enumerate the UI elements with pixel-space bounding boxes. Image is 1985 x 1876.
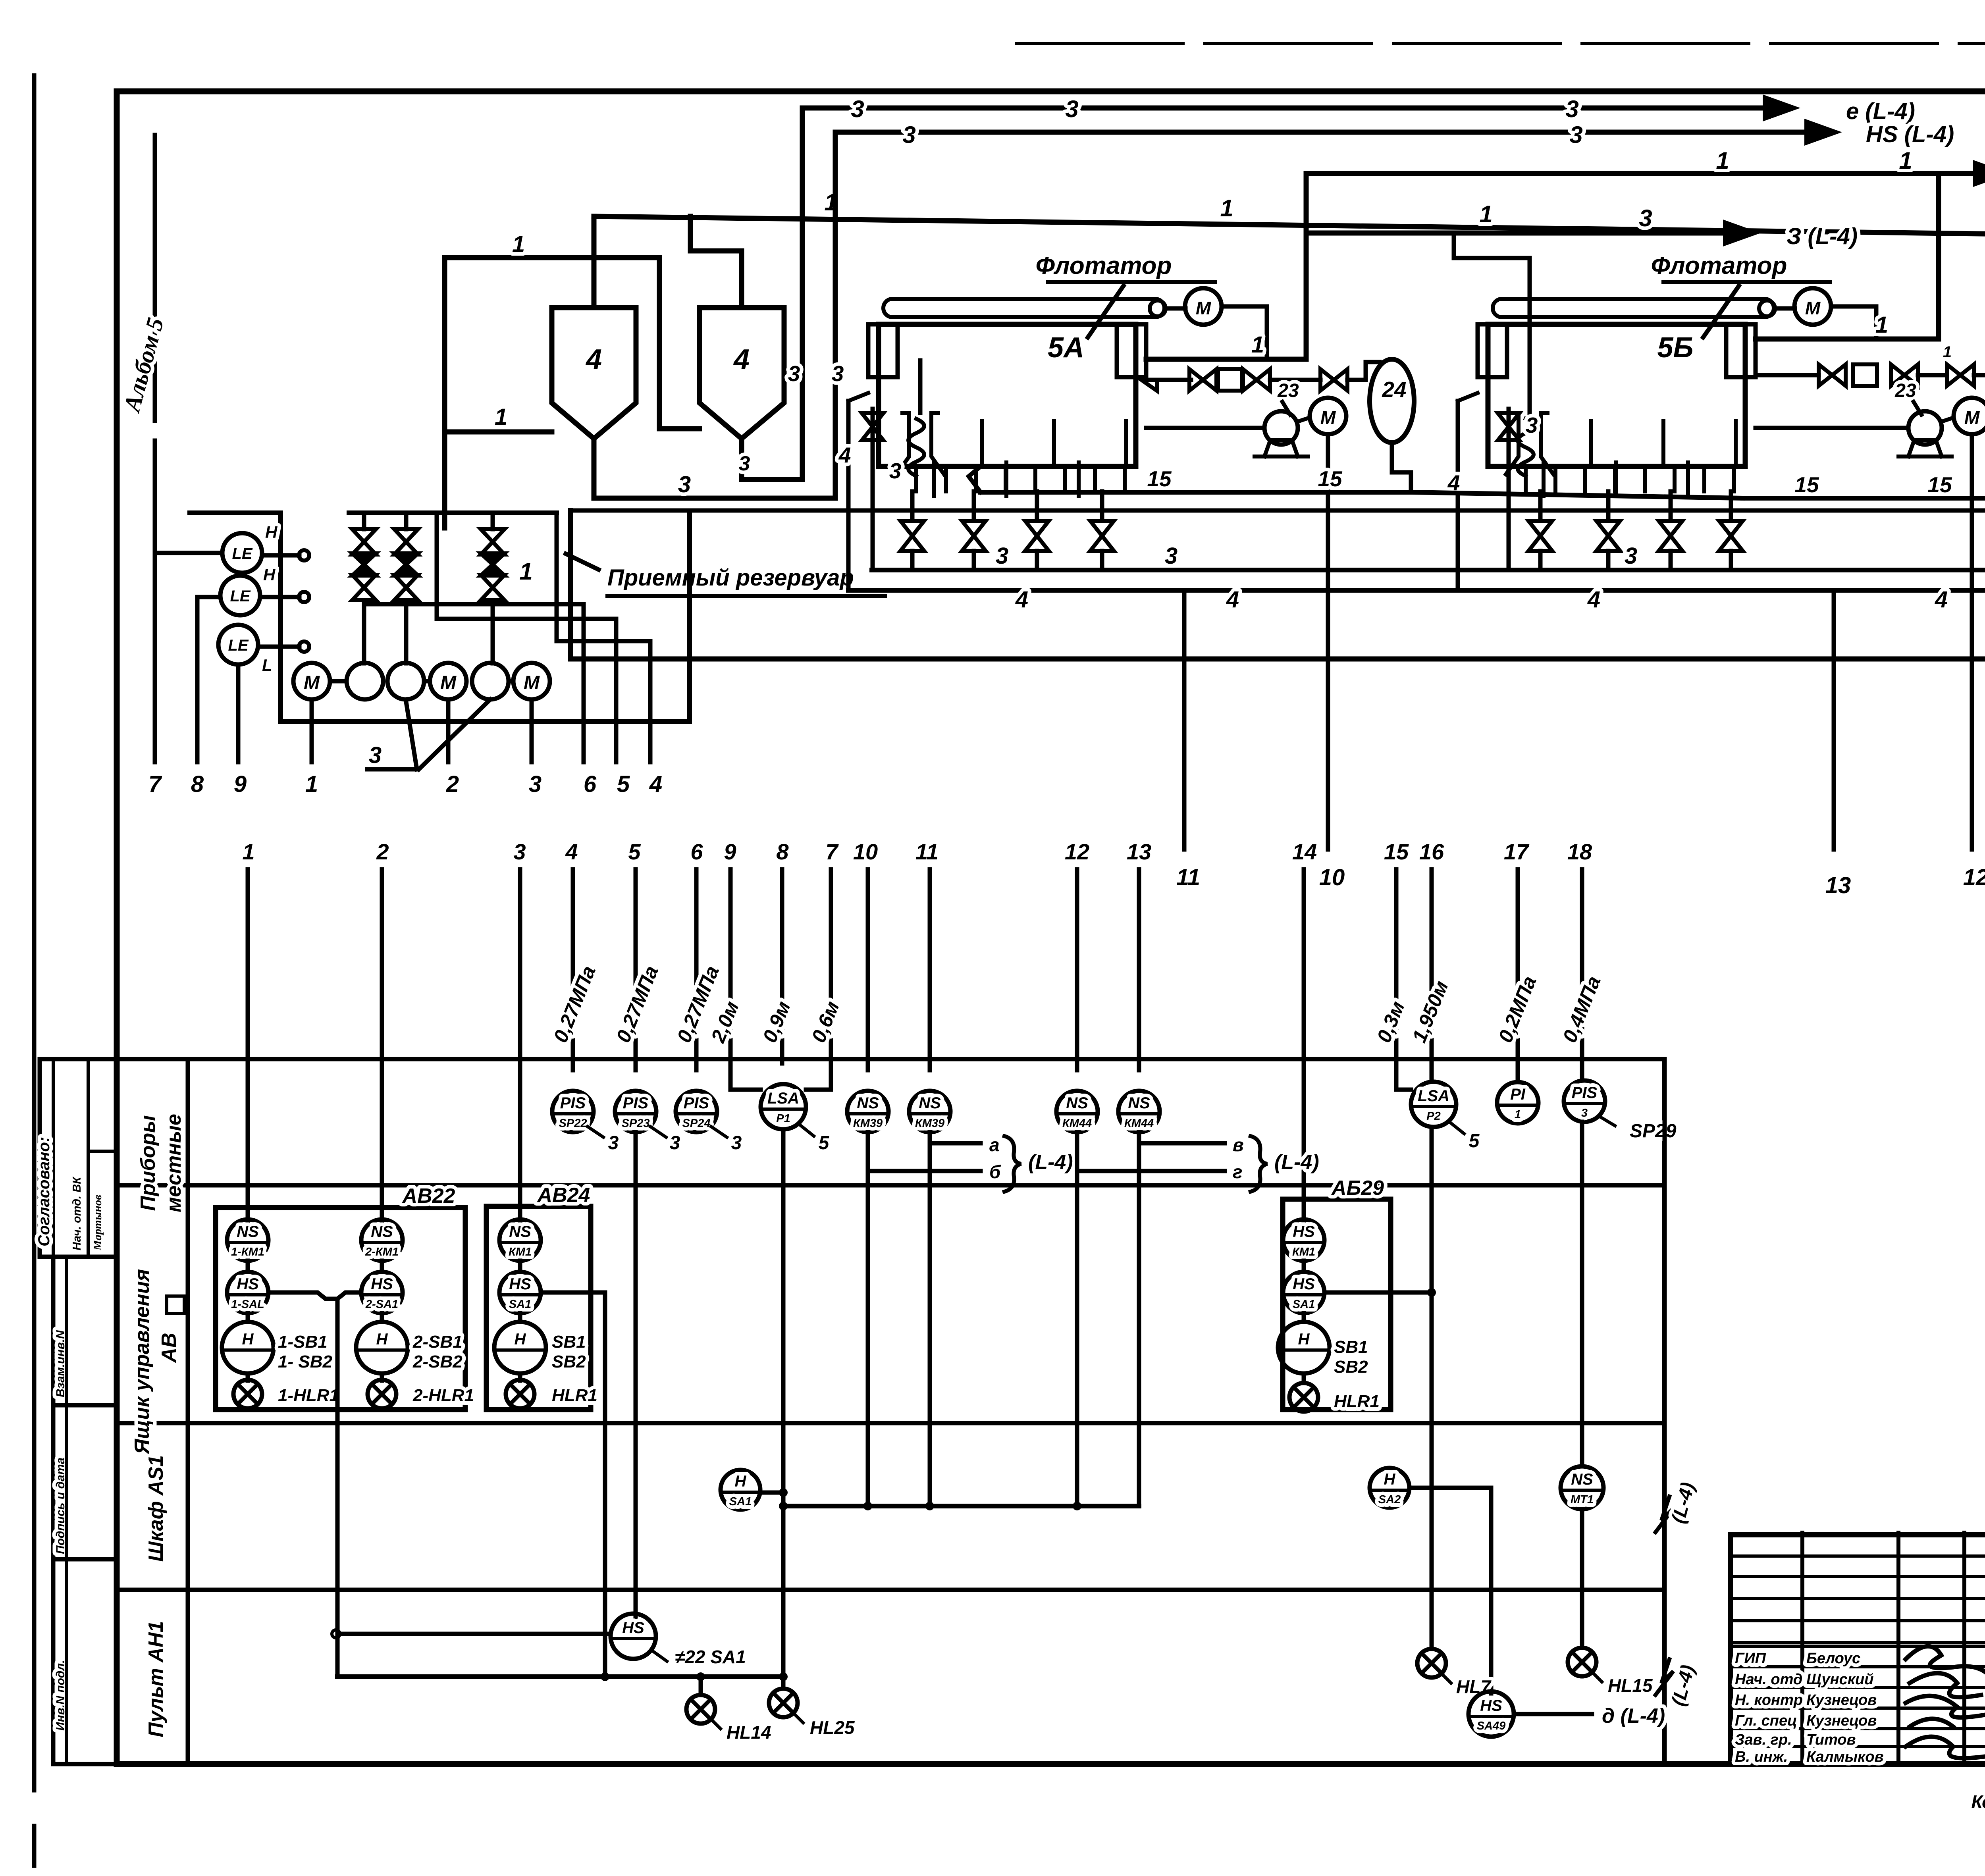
header 3 under tanks	[872, 568, 1985, 572]
wire 9 elbow into LSA P1	[730, 1088, 761, 1090]
motor M1 circle	[293, 663, 330, 699]
flotator 5B bottom valve 4	[1719, 521, 1743, 551]
level gauge LE3 circle	[218, 625, 258, 664]
svg-text:Шкаф AS1: Шкаф AS1	[145, 1455, 168, 1562]
L1 corner from tank2 drain riser	[800, 108, 805, 135]
label ≠22 SA1	[653, 1651, 667, 1661]
top margin dash-dot line	[1016, 42, 1985, 45]
instrument PIS SP22	[552, 1091, 594, 1132]
svg-text:Нач. отд. ВК: Нач. отд. ВК	[71, 1176, 83, 1250]
svg-text:2-SB1: 2-SB1	[412, 1332, 463, 1352]
svg-text:3: 3	[739, 452, 750, 475]
svg-text:7: 7	[148, 771, 162, 797]
svg-text:М: М	[524, 672, 540, 693]
wire 13 drop	[1832, 590, 1836, 849]
table wire 8 vertical	[780, 869, 784, 1063]
link pump23B-MB	[1942, 418, 1954, 422]
svg-text:23: 23	[1894, 380, 1916, 401]
wire 15 elbow into LSA P2	[1396, 1088, 1411, 1090]
link NS-HS АВ24	[518, 1261, 522, 1272]
svg-text:1: 1	[1515, 1108, 1521, 1121]
NS MT1 drop to HL15	[1580, 1509, 1584, 1648]
line 3 vertical with valve left of 5A	[871, 409, 875, 570]
svg-text:PIS: PIS	[1572, 1084, 1598, 1102]
pump 23B base	[1908, 440, 1942, 456]
svg-text:КМ1: КМ1	[509, 1246, 532, 1258]
flotator 5А skimmer pivot	[1150, 300, 1166, 316]
flotator 5B bottom valve 2	[1596, 521, 1620, 551]
wire 11 drop	[1182, 590, 1187, 849]
instrument H button АВ29	[1278, 1322, 1330, 1373]
svg-text:SР29: SР29	[1630, 1121, 1677, 1142]
title block name rows	[1731, 1645, 1985, 1648]
wire 2 from M2	[446, 699, 451, 762]
valve V2 stem to pump	[404, 600, 409, 663]
svg-text:HS: HS	[509, 1275, 531, 1293]
L2 corner from tank1 drain riser	[833, 132, 838, 159]
motor M3 circle	[513, 663, 550, 699]
wire 12 stub below bubble	[1075, 1132, 1079, 1171]
instrument HS SA49	[1469, 1691, 1514, 1737]
pump pit enclosure top-left bracket	[190, 510, 281, 515]
feed elbow into 5B funnel	[1454, 233, 1530, 258]
feed line 1 into tank1	[445, 430, 552, 435]
header 15 left hook	[969, 466, 981, 492]
flotator 5B outlet line 1	[1756, 337, 1939, 342]
svg-text:HL25: HL25	[810, 1717, 855, 1738]
flotator 5B bottom valve 4 stem	[1729, 491, 1733, 521]
table wire 14 vertical	[1302, 869, 1306, 1221]
branch а line	[930, 1141, 981, 1146]
svg-text:4: 4	[1587, 587, 1600, 612]
svg-text:3: 3	[788, 361, 800, 386]
svg-text:4: 4	[649, 771, 662, 797]
svg-text:SB1: SB1	[1334, 1337, 1368, 1357]
margin strip Взам.инв.N	[53, 1257, 117, 1405]
svg-text:LSA: LSA	[1418, 1087, 1449, 1105]
bus a from valve V1	[362, 600, 366, 663]
svg-text:HS: HS	[622, 1619, 644, 1637]
svg-text:Н: Н	[242, 1331, 254, 1348]
flotator 5А inlet pipe	[918, 360, 923, 413]
table wire 4 vertical	[571, 869, 575, 1070]
svg-text:5: 5	[617, 771, 630, 797]
flotator 5B bottom valve 1	[1528, 521, 1552, 551]
svg-text:NS: NS	[857, 1094, 879, 1112]
LE3 tap line and contact	[258, 645, 299, 649]
wire 10 stub below bubble	[866, 1132, 870, 1171]
lamp HL14	[699, 1677, 703, 1695]
LSA P1 continuation down	[781, 1129, 786, 1493]
bus b	[435, 513, 439, 619]
svg-text:Н. контр: Н. контр	[1735, 1692, 1803, 1708]
svg-text:SA2: SA2	[1378, 1493, 1401, 1506]
svg-text:SP24: SP24	[682, 1117, 711, 1130]
svg-text:Н: Н	[515, 1331, 526, 1348]
table wire 17 vertical	[1516, 869, 1520, 1081]
svg-text:Щунский: Щунский	[1806, 1671, 1873, 1688]
svg-text:3: 3	[608, 1133, 619, 1154]
svg-text:1: 1	[1251, 332, 1264, 358]
svg-text:НS: НS	[1293, 1223, 1315, 1240]
svg-text:1: 1	[1943, 343, 1952, 361]
gate valve 5A-b	[1243, 369, 1270, 391]
filter box 5B	[1853, 364, 1877, 386]
svg-text:3: 3	[1639, 205, 1652, 231]
svg-text:HL15: HL15	[1608, 1675, 1653, 1696]
svg-text:Приемный резервуар: Приемный резервуар	[607, 565, 854, 591]
svg-text:5А: 5А	[1048, 332, 1084, 364]
flotator 5A riser to L3	[1304, 173, 1309, 359]
link H-lamp col1	[246, 1373, 250, 1381]
level gauge LE2 circle	[220, 576, 260, 615]
svg-text:Н: Н	[1384, 1471, 1396, 1488]
svg-text:NS: NS	[509, 1223, 531, 1240]
svg-text:3: 3	[670, 1133, 680, 1154]
svg-text:4: 4	[585, 344, 602, 376]
svg-text:HS: HS	[237, 1275, 259, 1293]
label HL25	[793, 1713, 803, 1723]
svg-text:15: 15	[1384, 839, 1409, 864]
skimmer motor M 5А	[1185, 288, 1222, 325]
link HS-H АВ24	[518, 1313, 522, 1322]
table wire 12 vertical	[1075, 869, 1079, 1070]
svg-text:12: 12	[1065, 839, 1089, 864]
vessel 24A bottom stem	[1392, 443, 1411, 492]
svg-text:М: М	[1320, 407, 1336, 428]
break mark lower	[1655, 1659, 1673, 1695]
svg-text:Зав. гр.: Зав. гр.	[1735, 1732, 1792, 1748]
svg-text:NS: NS	[237, 1223, 259, 1240]
gate valve 5A-c	[1320, 369, 1347, 391]
svg-text:З (L-4): З (L-4)	[1786, 223, 1858, 249]
box АВ24	[486, 1206, 591, 1410]
svg-text:≠22 SA1: ≠22 SA1	[675, 1647, 746, 1667]
svg-text:2-SB2: 2-SB2	[412, 1352, 463, 1371]
lamp HL15	[1568, 1648, 1596, 1676]
LE1 left line to wire7	[155, 551, 222, 555]
manifold feed from tanks	[445, 511, 449, 515]
branch в line	[1139, 1141, 1225, 1146]
valve on line 3 5B	[1498, 413, 1519, 440]
svg-text:3: 3	[1569, 121, 1582, 148]
svg-text:2-HLR1: 2-HLR1	[412, 1386, 474, 1405]
instrument NS 1-KM1	[227, 1219, 268, 1261]
instrument H SA2 (Шкаф)	[1370, 1468, 1409, 1508]
svg-text:NS: NS	[919, 1094, 941, 1112]
svg-text:3: 3	[996, 543, 1008, 569]
gate valve 5B-a	[1819, 364, 1846, 386]
margin strip Инв.N подл.	[53, 1559, 117, 1764]
wire 13 down to bus	[1137, 1143, 1141, 1506]
instrument NS KM44 b	[1118, 1091, 1160, 1132]
svg-text:14: 14	[1292, 839, 1317, 864]
table wire 15 vertical	[1394, 869, 1399, 1088]
flotator 5А inlet funnel	[896, 413, 909, 474]
wire 7 vertical	[153, 553, 157, 762]
svg-text:М: М	[440, 672, 457, 693]
flotator 5B riser to L3	[1936, 173, 1941, 339]
svg-text:3: 3	[369, 742, 382, 768]
svg-text:HL14: HL14	[727, 1722, 771, 1743]
table row line r1 (top of Приборы местные)	[117, 1057, 1664, 1061]
svg-text:Н: Н	[263, 565, 276, 584]
flotator 5Б skimmer link	[1775, 306, 1795, 311]
flotator 5B bottom valve 1 stem	[1538, 491, 1543, 521]
Пульт bus1 to HS	[337, 1632, 611, 1636]
svg-text:HS: HS	[371, 1275, 393, 1293]
flotator 5Б skimmer pivot	[1759, 300, 1775, 316]
LSA P1 tag 5	[798, 1123, 814, 1136]
svg-text:Н: Н	[376, 1331, 388, 1348]
table wire 10 vertical	[866, 869, 870, 1070]
flotator 5А right corner box	[1117, 324, 1146, 377]
flotator 5A bottom valve 2	[962, 521, 986, 551]
reservoir top line	[570, 508, 1985, 513]
table title column divider	[186, 1059, 190, 1764]
svg-text:5: 5	[819, 1133, 830, 1154]
svg-text:1-КМ1: 1-КМ1	[231, 1246, 264, 1258]
svg-text:ГИП: ГИП	[1735, 1650, 1766, 1667]
svg-text:3: 3	[1165, 543, 1178, 569]
svg-text:3: 3	[513, 839, 526, 864]
svg-text:1- SB2: 1- SB2	[278, 1352, 332, 1371]
svg-text:3: 3	[1581, 1107, 1588, 1119]
svg-text:8: 8	[191, 771, 204, 797]
wire 5 continuation to Пульт	[634, 1132, 638, 1618]
svg-text:АВ: АВ	[158, 1333, 181, 1363]
svg-text:КМ39: КМ39	[853, 1117, 883, 1130]
wire 7 elbow into LSA P1	[806, 1088, 831, 1090]
svg-text:P1: P1	[776, 1112, 790, 1125]
svg-text:Ящик управления: Ящик управления	[131, 1269, 154, 1455]
title block small grid verticals	[1800, 1533, 1804, 1764]
tank1 drain header 3	[594, 496, 835, 501]
svg-text:HLR1: HLR1	[1334, 1392, 1380, 1411]
svg-text:М: М	[1805, 298, 1821, 318]
instrument HS SA1 (АВ24)	[499, 1272, 541, 1313]
lamp HL7	[1417, 1649, 1446, 1678]
svg-text:а: а	[989, 1134, 1000, 1155]
PIS 3 tag SP29	[1599, 1116, 1615, 1126]
svg-text:HLR1: HLR1	[552, 1386, 597, 1405]
instrument HS 2-SA1	[361, 1272, 403, 1313]
link pump3-M3	[509, 679, 513, 684]
table wire 13 vertical	[1137, 869, 1141, 1070]
tank 4 No2 body	[700, 308, 784, 439]
svg-text:PIS: PIS	[560, 1094, 586, 1112]
reservoir left edge	[568, 510, 573, 659]
svg-text:2-КМ1: 2-КМ1	[365, 1246, 399, 1258]
flotator 5A bottom valve 1 stem	[910, 491, 915, 521]
table wire 16 vertical	[1430, 869, 1434, 1082]
reservoir label leader	[566, 554, 599, 570]
svg-text:LE: LE	[230, 587, 251, 605]
svg-text:Флотатор: Флотатор	[1036, 252, 1172, 279]
svg-text:Н: Н	[1298, 1331, 1310, 1348]
table wire 5 vertical	[634, 869, 638, 1070]
flotator 5A bottom valve 1	[900, 521, 924, 551]
PIS SP22 tag 3	[588, 1127, 603, 1137]
instrument H button col1	[222, 1322, 274, 1373]
title block outer	[1731, 1532, 1985, 1537]
svg-text:1: 1	[519, 558, 532, 585]
table wire 11 vertical	[928, 869, 932, 1070]
table right boundary vertical	[1662, 1059, 1667, 1764]
valve V3 stem top	[491, 513, 495, 529]
HS SA1 branch right drop x1524	[541, 1292, 605, 1677]
vessel 24A	[1370, 359, 1414, 443]
branch б line	[868, 1169, 981, 1173]
lamp 1-HLR1	[233, 1380, 262, 1408]
svg-text:SА49: SА49	[1477, 1720, 1506, 1732]
svg-text:9: 9	[234, 771, 247, 797]
table wire 3 vertical	[518, 869, 522, 1221]
bus c	[555, 513, 559, 641]
valve row line 5A	[1146, 378, 1191, 382]
svg-text:3: 3	[1565, 96, 1578, 122]
shutoff valve stack V3	[481, 529, 505, 555]
skimmer motor M 5Б	[1794, 288, 1831, 325]
valve V1 stem top	[362, 513, 366, 529]
instrument LSA P2	[1411, 1082, 1456, 1127]
instrument H button col2	[356, 1322, 408, 1373]
svg-text:3: 3	[832, 361, 844, 386]
link NS-HS col1	[246, 1261, 250, 1272]
wire 16 continuation down	[1430, 1127, 1434, 1649]
flotator 5Б right corner box	[1726, 324, 1756, 377]
label HL7	[1441, 1673, 1451, 1683]
svg-text:Белоус: Белоус	[1806, 1650, 1860, 1667]
pump 23B suction	[1756, 426, 1908, 430]
svg-text:1: 1	[495, 404, 507, 430]
svg-text:3: 3	[1526, 413, 1538, 437]
shutoff valve stack V2	[394, 529, 418, 555]
feed drop to tank2	[657, 258, 662, 429]
motor M2 circle	[430, 663, 466, 699]
table row line r3 (Ящик/Шкаф)	[117, 1421, 1664, 1425]
box АВ29	[1283, 1199, 1391, 1410]
wire 11 down to bus	[928, 1143, 932, 1506]
table row line r4 (Шкаф/Пульт)	[117, 1588, 1664, 1592]
svg-text:МТ1: МТ1	[1571, 1493, 1594, 1506]
tank 4 No2 drain stem	[739, 439, 744, 480]
flotator 5A bottom valve 4 stem	[1100, 491, 1104, 521]
line 3 vertical with valve left of 5B	[1507, 409, 1511, 570]
wire 18 continuation down	[1580, 1122, 1584, 1466]
flotator 5Б inlet pipe	[1528, 258, 1532, 413]
link H-lamp АВ29	[1302, 1373, 1306, 1381]
svg-text:е (L-4): е (L-4)	[1846, 98, 1915, 124]
flotator 5A outlet line 1	[1146, 357, 1306, 362]
svg-text:В. инж.: В. инж.	[1735, 1749, 1788, 1765]
svg-text:КМ39: КМ39	[915, 1117, 944, 1130]
svg-text:б: б	[989, 1161, 1001, 1182]
svg-text:HS: HS	[1293, 1275, 1315, 1293]
table row line r2 (Приборы/Ящик)	[117, 1183, 1664, 1188]
pipeline L1 water-3 to e(L-4)	[802, 106, 1763, 111]
svg-text:3: 3	[1625, 543, 1637, 569]
svg-text:LE: LE	[232, 545, 252, 562]
wire 3 slant from pump2	[406, 699, 417, 769]
table wire 2 vertical	[380, 869, 384, 1221]
lamp HL25	[781, 1677, 786, 1689]
svg-text:Н: Н	[735, 1473, 747, 1490]
svg-text:11: 11	[915, 839, 939, 864]
svg-text:1: 1	[512, 231, 525, 257]
svg-text:SP23: SP23	[622, 1117, 650, 1130]
svg-text:5Б: 5Б	[1657, 332, 1693, 364]
pipeline L3 line-1 to K(L-4)	[1306, 171, 1973, 176]
recycle header 15	[981, 490, 1411, 495]
pump pit bottom line	[281, 719, 690, 724]
link HS-H АВ29	[1302, 1313, 1306, 1322]
tank 4 No1 body	[552, 308, 636, 439]
instrument HS SA1 (АВ29)	[1283, 1272, 1324, 1313]
svg-text:24: 24	[1382, 377, 1406, 402]
svg-text:SB2: SB2	[552, 1352, 586, 1371]
svg-text:NS: NS	[371, 1223, 393, 1240]
skimmer motor 5А supply elbow	[1222, 306, 1267, 359]
svg-text:4: 4	[838, 443, 851, 467]
instrument NS KM1 (АВ29)	[1283, 1219, 1324, 1261]
svg-text:10: 10	[853, 839, 878, 864]
feed left vertical	[442, 258, 447, 528]
svg-text:NS: NS	[1571, 1471, 1593, 1488]
tank 4 No1 riser	[592, 216, 597, 308]
header 4 under tanks	[848, 588, 1985, 593]
margin box Согласовано	[40, 1059, 117, 1257]
gate valve 5B-c	[1947, 364, 1974, 386]
svg-text:1: 1	[242, 839, 254, 864]
svg-text:М: М	[1964, 407, 1980, 428]
flotator 5А skimmer bar	[883, 299, 1164, 317]
svg-text:1-SB1: 1-SB1	[278, 1332, 328, 1352]
svg-text:13: 13	[1825, 873, 1851, 898]
flotator 5A bottom valve 3 stem	[1035, 491, 1039, 521]
svg-text:10: 10	[1319, 865, 1345, 890]
link M1-pump1	[330, 679, 347, 684]
flotator 5Б inlet funnel	[1506, 413, 1519, 474]
svg-text:1: 1	[1899, 147, 1912, 174]
HS SA1 АВ29 branch to wire16	[1324, 1290, 1432, 1295]
table wire 1 vertical	[246, 869, 250, 1221]
svg-text:2-SA1: 2-SA1	[365, 1298, 398, 1311]
svg-text:АВ24: АВ24	[537, 1184, 590, 1207]
lamp HLR1 (АВ24)	[506, 1380, 534, 1408]
svg-text:23: 23	[1277, 380, 1299, 401]
instrument HS 1-SA1	[227, 1272, 268, 1313]
flotator 5B bottom valve 3	[1659, 521, 1682, 551]
elbow to vessel 24A	[1347, 362, 1380, 380]
margin box Согласовано divider	[52, 1059, 55, 1257]
svg-text:в: в	[1233, 1134, 1244, 1155]
svg-text:Калмыков: Калмыков	[1806, 1749, 1884, 1765]
svg-text:LE: LE	[228, 637, 249, 654]
link HS-H col2	[380, 1313, 384, 1322]
svg-text:местные: местные	[162, 1114, 185, 1212]
svg-text:Мартынов: Мартынов	[91, 1195, 104, 1251]
svg-text:16: 16	[1419, 839, 1444, 864]
bus Шкаф y3794	[783, 1504, 1139, 1508]
table wire 9 vertical	[728, 869, 733, 1088]
svg-text:г: г	[1233, 1161, 1243, 1182]
svg-text:NS: NS	[1128, 1094, 1150, 1112]
svg-text:2: 2	[376, 839, 389, 864]
svg-text:PIS: PIS	[623, 1094, 649, 1112]
pump1 circle	[347, 663, 383, 699]
svg-text:4: 4	[1226, 587, 1239, 612]
